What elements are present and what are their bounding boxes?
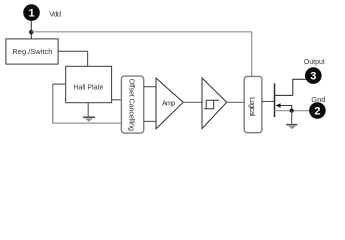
svg-text:Reg./Switch: Reg./Switch (12, 47, 52, 56)
wire pin1 to Reg./Switch (30, 21, 32, 39)
ground (Hall Plate) (83, 103, 95, 122)
wire left loop vertical (52, 84, 54, 124)
wire Offset Cancelling to Amp lower (144, 120, 156, 122)
junction dot Vdd node (29, 30, 33, 34)
wire Hall Plate left contact to corner (53, 83, 66, 85)
block Reg./Switch (6, 39, 58, 64)
wire collector to Output pin (293, 79, 306, 95)
pin circle 2 (Gnd terminal) (309, 102, 326, 119)
wire Gnd rail (275, 110, 310, 112)
svg-text:2: 2 (314, 106, 320, 118)
pin circle 3 (Output terminal) (305, 67, 322, 84)
svg-text:Logical: Logical (248, 97, 257, 116)
wire left loop bottom to Offset Cancelling (52, 122, 121, 124)
wire Vdd rail to Logical (31, 32, 251, 77)
svg-text:Vdd: Vdd (49, 9, 61, 18)
block Logical (244, 76, 262, 132)
svg-text:Amp: Amp (162, 100, 175, 107)
wire Reg./Switch to Hall Plate bias (58, 51, 88, 66)
junction dot emitter/gnd node (290, 109, 294, 113)
svg-text:1: 1 (28, 8, 34, 20)
ground (output transistor) (286, 111, 297, 129)
wire Amp to Schmitt trigger (183, 101, 202, 103)
pin circle 1 (Vdd terminal) (23, 4, 40, 21)
op-amp Amp (156, 78, 183, 129)
svg-text:Output: Output (304, 59, 325, 66)
svg-text:3: 3 (310, 71, 316, 83)
wire Logical to transistor base (262, 101, 275, 103)
schmitt trigger (202, 78, 227, 129)
wire Schmitt trigger to Logical (227, 101, 245, 103)
transistor Q1 (open collector output) (275, 83, 293, 117)
wire Hall Plate right contact to Offset Cancelling (112, 99, 122, 101)
wire Offset Cancelling to Amp upper (144, 86, 156, 88)
svg-text:Hall Plate: Hall Plate (73, 84, 103, 91)
block Offset Cancelling (121, 76, 143, 133)
svg-text:Offset Cancelling: Offset Cancelling (128, 79, 137, 132)
block Hall Plate (66, 66, 112, 102)
